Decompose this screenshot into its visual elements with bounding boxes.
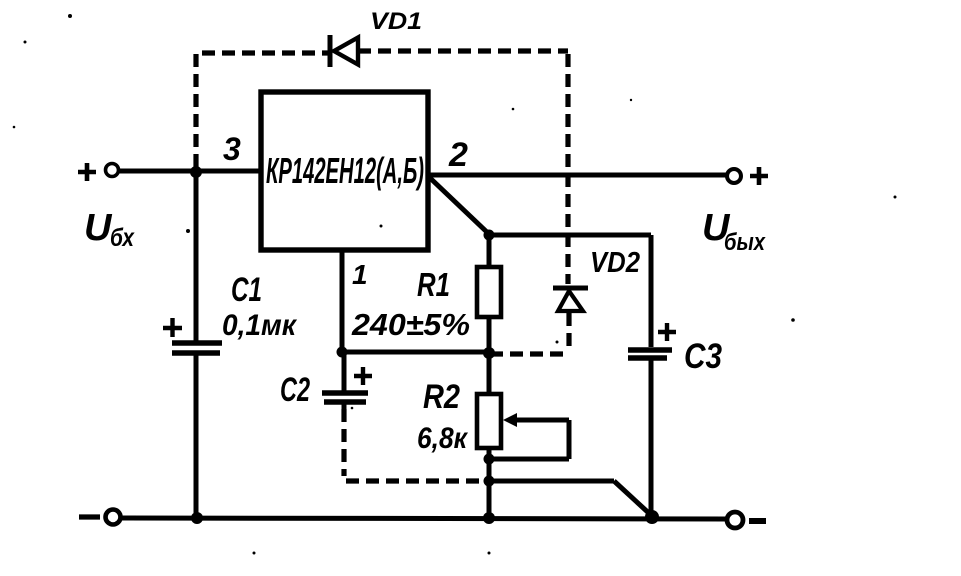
- svg-text:1: 1: [352, 259, 368, 290]
- svg-text:3: 3: [223, 131, 241, 167]
- svg-text:бх: бх: [110, 224, 135, 252]
- svg-text:R1: R1: [417, 266, 450, 303]
- svg-text:R2: R2: [423, 378, 460, 416]
- svg-text:C2: C2: [280, 371, 310, 409]
- svg-text:U: U: [84, 207, 113, 249]
- svg-text:C1: C1: [231, 271, 262, 309]
- svg-text:0,1мк: 0,1мк: [222, 309, 298, 342]
- svg-text:VD1: VD1: [370, 8, 422, 35]
- svg-text:240±5%: 240±5%: [351, 307, 470, 342]
- svg-text:КР142ЕН12(А,Б): КР142ЕН12(А,Б): [266, 150, 424, 191]
- svg-text:VD2: VD2: [590, 247, 640, 279]
- svg-text:6,8к: 6,8к: [417, 422, 469, 455]
- svg-text:бых: бых: [724, 229, 766, 256]
- svg-text:2: 2: [448, 136, 468, 174]
- svg-text:C3: C3: [684, 337, 722, 376]
